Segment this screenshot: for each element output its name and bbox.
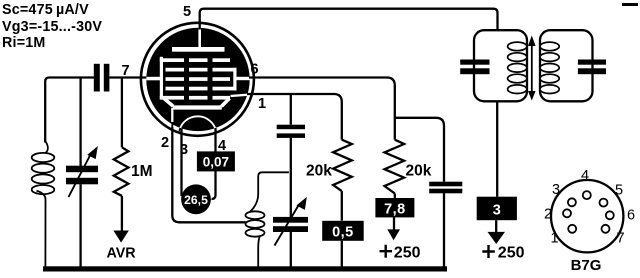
- cathode lead black part (under disc): [171, 108, 173, 130]
- tube U1 envelope: [141, 23, 255, 136]
- heater dome black part (under disc): [179, 116, 216, 131]
- arrow +250 right: [495, 220, 497, 232]
- svg-text:1: 1: [258, 96, 266, 112]
- grid g5 row1: [166, 58, 231, 62]
- coupling arrow: [531, 42, 533, 95]
- anode lead white: [198, 26, 201, 48]
- svg-text:AVR: AVR: [107, 246, 137, 262]
- svg-text:20k: 20k: [406, 163, 432, 180]
- svg-text:7: 7: [122, 63, 130, 79]
- capacitor C4 screen bypass: [429, 182, 462, 187]
- wire pin6 to screen feed: [249, 78, 395, 140]
- svg-text:7: 7: [617, 231, 625, 247]
- coil L1 antenna: [32, 141, 55, 267]
- svg-text:0,07: 0,07: [203, 154, 229, 169]
- anode bar: [172, 47, 225, 52]
- IF transformer T1 primary loop: [474, 30, 527, 101]
- svg-text:Sc=475 µA/V: Sc=475 µA/V: [2, 2, 89, 18]
- resistor R1 1M: [121, 78, 123, 148]
- arrow +250 left: [393, 217, 395, 230]
- IF transformer T1 secondary loop: [540, 30, 593, 101]
- cathode lead white: [171, 108, 173, 122]
- resistor R2 20k: [333, 140, 352, 191]
- right bracket screen tie: [233, 68, 236, 91]
- svg-text:0,5: 0,5: [332, 225, 354, 241]
- wire top-right stub: [622, 3, 638, 6]
- left bracket (internal connection): [160, 57, 163, 99]
- svg-text:4: 4: [581, 168, 589, 184]
- socket pins: [563, 191, 614, 233]
- svg-text:5: 5: [615, 183, 623, 199]
- svg-text:Vg3=-15...-30V: Vg3=-15...-30V: [2, 19, 102, 35]
- svg-text:3: 3: [493, 202, 501, 218]
- svg-text:1M: 1M: [131, 163, 153, 180]
- wire pin1 to R2: [247, 94, 342, 140]
- svg-text:20k: 20k: [306, 163, 332, 180]
- cathode: [163, 98, 173, 106]
- capacitor C1 (grid coupling): [94, 64, 100, 92]
- wire pin3 to badge: [180, 129, 182, 197]
- wire pin4 through C2: [214, 128, 216, 152]
- grid g3 row3: [166, 77, 231, 81]
- svg-text:26,5: 26,5: [184, 193, 208, 207]
- B7G socket circle: [551, 180, 623, 252]
- svg-text:5: 5: [183, 4, 191, 20]
- svg-text:2: 2: [161, 135, 169, 151]
- coil L3 primary: [508, 42, 527, 93]
- box 7,8: [375, 198, 414, 217]
- wire pin2 cathode down-right to coil: [172, 127, 246, 222]
- capacitor C6 box 0,5: [322, 221, 364, 241]
- svg-text:6: 6: [627, 208, 635, 224]
- arrow to AVR: [113, 231, 128, 243]
- text +250 left: [380, 245, 393, 258]
- wire pin5 to transformer: [200, 9, 498, 31]
- screen stub to pin 6: [237, 77, 253, 80]
- svg-text:7,8: 7,8: [384, 201, 406, 217]
- svg-text:2: 2: [544, 207, 552, 223]
- capacitor C3: [290, 94, 292, 125]
- wire C1 to tube pin7: [109, 76, 154, 78]
- svg-text:1: 1: [551, 231, 559, 247]
- ground bus: [43, 266, 447, 271]
- wire primary bottom to box 3: [496, 101, 498, 196]
- svg-text:Ri=1M: Ri=1M: [2, 35, 46, 51]
- svg-text:6: 6: [251, 62, 259, 78]
- variable capacitor VC2: [273, 217, 308, 223]
- tube black disc: [146, 28, 249, 131]
- text +250 right: [482, 245, 495, 258]
- badge 26,5: [181, 184, 211, 214]
- capacitor C2 box 0,07: [197, 151, 235, 171]
- wire screen branch to bypass cap: [395, 118, 444, 182]
- box 3: [477, 197, 517, 221]
- grid g4 row2: [166, 68, 237, 72]
- svg-text:3: 3: [552, 182, 560, 198]
- svg-text:250: 250: [394, 244, 421, 261]
- wire antenna top horizontal: [45, 78, 94, 143]
- grid g1 row5: [166, 96, 231, 100]
- pin1 internal lead: [231, 94, 255, 96]
- coil L4 secondary: [540, 42, 559, 93]
- svg-text:250: 250: [498, 245, 525, 262]
- capacitor C5 primary: [460, 60, 489, 65]
- resistor R3 20k: [385, 140, 405, 194]
- coil L2 oscillator: [246, 172, 289, 266]
- grid g2 row4: [166, 87, 237, 91]
- variable capacitor VC1: [79, 78, 81, 167]
- heater dome white part: [179, 116, 216, 131]
- capacitor C7 secondary: [578, 60, 606, 65]
- grid stub to pin 7: [146, 77, 161, 81]
- svg-text:B7G: B7G: [571, 257, 602, 274]
